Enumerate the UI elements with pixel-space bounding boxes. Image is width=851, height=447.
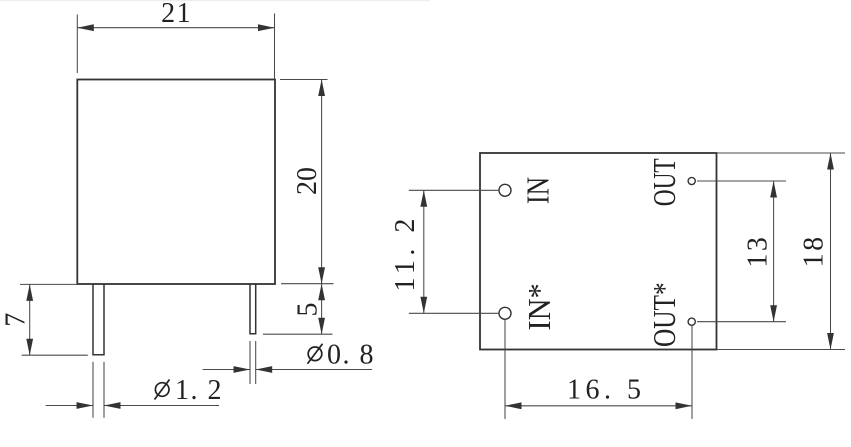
dimension 21 arrow right xyxy=(258,24,275,31)
svg-text:11. 2: 11. 2 xyxy=(390,214,421,291)
dia 1.2 dimension line xyxy=(46,405,93,407)
dimension 18 arrow top xyxy=(827,153,834,170)
dimension 18 extension line top xyxy=(717,152,846,154)
dimension 11.2 arrow top xyxy=(420,190,427,207)
dimension 20 arrow bottom xyxy=(318,267,325,284)
dia 1.2 arrow left xyxy=(77,402,94,409)
dimension 21 extension line right xyxy=(274,14,276,80)
svg-text:16. 5: 16. 5 xyxy=(567,375,646,406)
module body (bottom view) xyxy=(480,153,717,350)
svg-text:1. 2: 1. 2 xyxy=(175,375,223,406)
svg-text:0. 8: 0. 8 xyxy=(327,339,375,370)
dimension 13 arrow top xyxy=(770,181,777,198)
dimension 11.2 extension line bottom xyxy=(409,312,499,314)
module body (front view) xyxy=(77,80,275,285)
dimension 16.5 line xyxy=(505,405,692,407)
dia 0.8 arrow right xyxy=(256,366,273,373)
dimension 7 line xyxy=(29,284,31,355)
dia 0.8 extension line right xyxy=(255,341,257,384)
dimension 7 arrow bottom xyxy=(26,339,33,356)
dia 0.8 dimension line xyxy=(203,369,250,371)
svg-text:18: 18 xyxy=(799,234,830,267)
top border line (very faint) xyxy=(0,0,430,1)
right pin (front view) xyxy=(250,284,256,333)
pin circle OUT xyxy=(688,177,695,184)
dimension 11.2 extension line top xyxy=(409,189,499,191)
dimension 20 extension line top xyxy=(280,79,328,81)
svg-text:IN: IN xyxy=(521,177,556,204)
dimension 7 extension line bottom xyxy=(22,354,88,356)
dimension 20 arrow top xyxy=(318,80,325,97)
dia 0.8 arrow left xyxy=(234,366,251,373)
dimension 11.2 arrow bottom xyxy=(420,297,427,314)
dimension 20 line xyxy=(321,80,323,284)
dimension 7 arrow top xyxy=(26,284,33,301)
svg-text:IN*: IN* xyxy=(521,283,557,330)
diameter symbol 1.2 xyxy=(155,380,170,400)
dia 1.2 arrow right xyxy=(104,402,121,409)
dimension 21 arrow left xyxy=(77,24,94,31)
dia 0.8 extension line left xyxy=(249,341,251,384)
dimension 11.2 line xyxy=(423,190,425,313)
svg-text:OUT: OUT xyxy=(648,158,683,206)
dimension 5 line xyxy=(321,284,323,335)
dimension 13 extension line top xyxy=(697,180,786,182)
svg-text:13: 13 xyxy=(743,235,774,268)
svg-text:7: 7 xyxy=(0,313,31,327)
svg-text:OUT*: OUT* xyxy=(647,282,683,347)
svg-text:20: 20 xyxy=(292,167,323,195)
dimension 16.5 extension line left (from IN* pin) xyxy=(504,320,506,420)
dimension 16.5 extension line right (from OUT* pin) xyxy=(691,326,693,420)
pin circle IN xyxy=(499,184,511,196)
pin circle IN* xyxy=(499,307,511,319)
pin circle OUT* xyxy=(688,318,695,325)
dia 1.2 extension line left xyxy=(92,362,94,418)
svg-text:5: 5 xyxy=(292,303,323,317)
body bottom extension line (20/5) xyxy=(281,283,334,285)
dimension 5 arrow top xyxy=(318,284,325,301)
dimension 16.5 arrow right xyxy=(676,402,693,409)
svg-text:21: 21 xyxy=(161,0,192,29)
diameter symbol 0.8 xyxy=(308,344,323,364)
dimension 18 arrow bottom xyxy=(827,333,834,350)
dimension 5 extension line bottom xyxy=(263,333,333,335)
dimension 13 extension line bottom xyxy=(697,321,786,323)
left pin (front view) xyxy=(93,284,104,354)
dimension 18 extension line bottom xyxy=(717,349,846,351)
dimension 16.5 arrow left xyxy=(505,402,522,409)
dimension 13 line xyxy=(773,181,775,322)
dimension 18 line xyxy=(830,153,832,350)
dimension 21 extension line left xyxy=(76,15,78,74)
dimension 5 arrow bottom xyxy=(318,318,325,335)
dimension 13 arrow bottom xyxy=(770,305,777,322)
dia 1.2 extension line right xyxy=(103,362,105,418)
dimension 7 extension line top (left of body) xyxy=(20,283,77,285)
dimension 21 line xyxy=(77,27,274,29)
